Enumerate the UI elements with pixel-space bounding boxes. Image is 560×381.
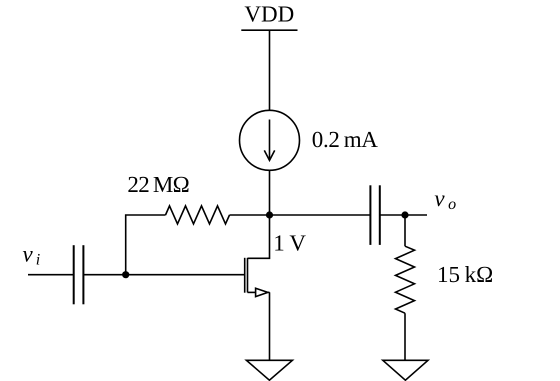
node junction input bbox=[122, 271, 129, 278]
node junction drain bbox=[266, 211, 273, 218]
resistor R2 bbox=[396, 246, 415, 313]
svg-text:15 kΩ: 15 kΩ bbox=[437, 262, 493, 287]
current source I1 bbox=[240, 110, 300, 170]
svg-text:0.2 mA: 0.2 mA bbox=[312, 127, 378, 152]
wire source to ground bbox=[269, 292, 271, 360]
node junction output bbox=[401, 211, 408, 218]
wire R2 to ground bbox=[404, 313, 406, 360]
capacitor C1 bbox=[74, 245, 84, 304]
svg-text:vi: vi bbox=[23, 242, 41, 269]
wire gate bbox=[126, 274, 245, 276]
wire output node to R2 bbox=[404, 215, 406, 246]
resistor R1 bbox=[166, 206, 230, 224]
wire drain node horizontal bbox=[230, 214, 371, 216]
svg-text:1 V: 1 V bbox=[273, 230, 306, 255]
wire VDD to current source bbox=[269, 30, 271, 110]
transistor Q1 bbox=[245, 215, 270, 297]
ground output bbox=[383, 360, 428, 380]
wire input node to R1 bbox=[126, 215, 166, 275]
svg-text:22 MΩ: 22 MΩ bbox=[127, 172, 189, 197]
wire C1 to input node bbox=[83, 274, 125, 276]
ground source bbox=[246, 360, 292, 380]
wire current source to drain node bbox=[269, 170, 271, 215]
svg-text:VDD: VDD bbox=[244, 2, 294, 27]
wire input terminal to C1 bbox=[28, 274, 74, 276]
svg-text:vo: vo bbox=[434, 186, 456, 213]
power supply VDD bar bbox=[241, 29, 297, 31]
capacitor C2 bbox=[370, 185, 379, 245]
wire C2 to output node bbox=[380, 214, 427, 216]
